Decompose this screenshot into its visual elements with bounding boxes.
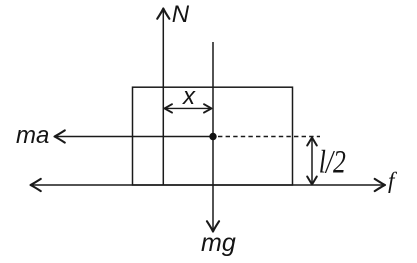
svg-text:l/2: l/2 <box>319 145 346 180</box>
block outline <box>133 87 293 185</box>
ma force arrow <box>55 130 214 142</box>
svg-text:N: N <box>172 1 190 28</box>
svg-text:x: x <box>182 83 196 110</box>
dashed line <box>218 136 320 138</box>
x dimension arrow <box>165 104 212 112</box>
svg-text:f: f <box>388 168 398 193</box>
normal force N arrow <box>157 9 169 186</box>
l/2 dimension arrow <box>307 138 317 185</box>
svg-text:mg: mg <box>201 229 236 257</box>
svg-text:ma: ma <box>16 122 49 149</box>
floor line with arrows <box>31 179 386 191</box>
centre of mass dot <box>209 133 216 140</box>
mg line (vertical through centre) <box>207 42 219 232</box>
